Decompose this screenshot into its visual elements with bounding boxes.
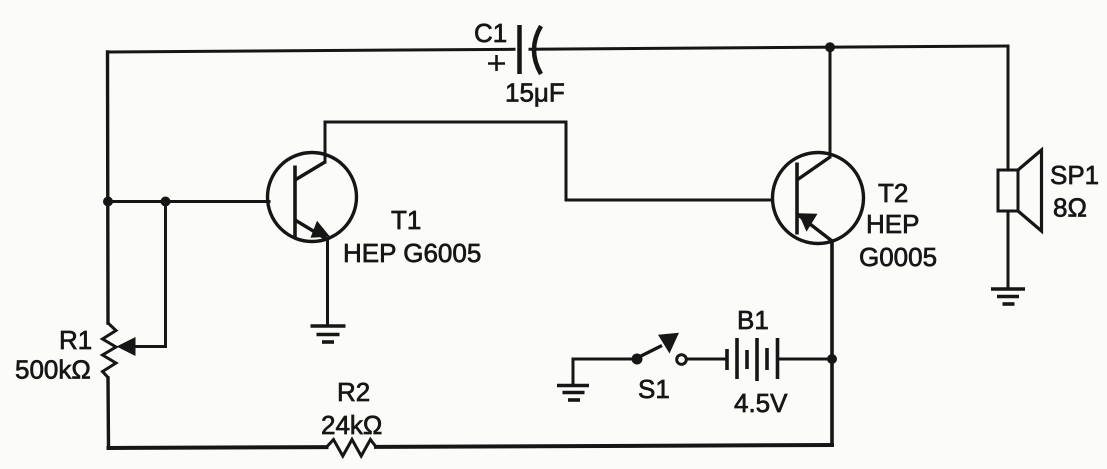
svg-text:B1: B1 [737, 305, 769, 335]
svg-text:HEP G6005: HEP G6005 [343, 238, 481, 268]
svg-text:4.5V: 4.5V [734, 388, 788, 418]
svg-text:24kΩ: 24kΩ [321, 410, 382, 440]
svg-text:R1: R1 [59, 325, 92, 355]
svg-text:SP1: SP1 [1050, 160, 1099, 190]
svg-text:15μF: 15μF [505, 78, 565, 108]
svg-text:C1: C1 [474, 18, 507, 48]
svg-text:500kΩ: 500kΩ [15, 355, 91, 385]
svg-text:G0005: G0005 [859, 242, 937, 272]
svg-text:8Ω: 8Ω [1053, 193, 1087, 223]
svg-text:T1: T1 [391, 205, 421, 235]
svg-text:S1: S1 [638, 374, 670, 404]
svg-text:HEP: HEP [866, 209, 919, 239]
svg-text:T2: T2 [878, 178, 908, 208]
svg-text:R2: R2 [337, 377, 370, 407]
